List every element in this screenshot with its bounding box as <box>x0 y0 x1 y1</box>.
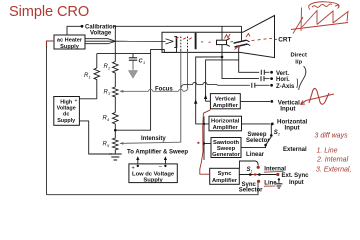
svg-text:ac Heater: ac Heater <box>57 38 83 44</box>
svg-text:External: External <box>283 147 307 153</box>
resistor R3 (focus pot) <box>104 87 119 112</box>
svg-text:Voltage: Voltage <box>90 31 112 37</box>
svg-text:2: 2 <box>277 131 281 136</box>
svg-text:Linear: Linear <box>246 152 265 158</box>
wire: divider top rail <box>97 53 151 55</box>
svg-text:Supply: Supply <box>60 44 80 50</box>
switch S2 arm <box>266 137 271 145</box>
wire: G1 lead down to intensity <box>180 51 182 143</box>
resistor R5 (intensity pot) <box>103 130 119 153</box>
beam axis (red dashes) <box>201 38 272 42</box>
ac heater supply box <box>54 35 85 50</box>
low dc voltage supply box <box>129 164 177 184</box>
wire: heater box left red corner <box>47 41 55 47</box>
vertical amplifier box U1 <box>210 94 240 109</box>
capacitor Z-axis coupling <box>252 83 270 88</box>
resistor R4 <box>103 112 119 130</box>
red annotation: 3 diff ways <box>315 133 352 174</box>
resistor R1 <box>84 54 100 99</box>
wire: first pair lead up to top rail <box>221 26 223 40</box>
wire: intensity wiper line <box>120 136 181 145</box>
svg-text:1: 1 <box>251 169 253 174</box>
anode bar <box>195 33 197 49</box>
svg-text:Input: Input <box>285 125 300 132</box>
svg-text:Amplifier: Amplifier <box>212 178 238 184</box>
svg-text:Low dc Voltage: Low dc Voltage <box>132 171 175 177</box>
CRT neck <box>162 32 243 52</box>
node vertical input terminal <box>270 99 300 112</box>
svg-text:Simple CRO: Simple CRO <box>9 4 89 20</box>
cathode <box>174 36 177 48</box>
wire: horizontal amp output up to plates <box>194 57 222 124</box>
node line contact (red) <box>257 180 277 187</box>
svg-text:Vert.: Vert. <box>276 71 289 77</box>
grid G2 (dashed) <box>187 37 189 51</box>
wire: HV minus to ground <box>79 121 112 154</box>
horizontal deflection plates (second pair, slanted) <box>234 40 251 47</box>
svg-text:3: 3 <box>108 91 111 96</box>
wire: vertical amp output up to plates <box>204 60 239 101</box>
node R4-R5 junction <box>114 129 117 132</box>
wire: first pair lead down to Hori terminal <box>221 45 259 79</box>
node calibration voltage terminal <box>81 24 117 36</box>
svg-text:4: 4 <box>107 117 110 122</box>
svg-text:To Amplifier & Sweep: To Amplifier & Sweep <box>127 150 188 156</box>
wire: internal sync red trace <box>197 110 210 174</box>
label to amplifier and sweep <box>127 150 188 156</box>
svg-text:Calibration: Calibration <box>85 24 117 30</box>
red annotation: marks near plates and gun <box>176 34 250 50</box>
ground under R5 <box>109 154 122 160</box>
capacitor C1 <box>129 54 145 70</box>
svg-text:2. Internal: 2. Internal <box>316 157 349 164</box>
node horizontal input terminal <box>271 119 308 132</box>
svg-text:5: 5 <box>107 143 110 148</box>
wire: G2 lead down to focus <box>187 51 189 89</box>
resistor R2 <box>104 54 119 87</box>
ground at line contact <box>275 178 282 188</box>
svg-text:Amplifier: Amplifier <box>213 125 239 131</box>
wire: sawtooth output to S2 linear contact <box>241 144 267 148</box>
svg-text:dc: dc <box>63 112 69 118</box>
vertical deflection plates (first pair) <box>217 38 230 46</box>
svg-text:1: 1 <box>89 75 91 80</box>
wire: left rail <box>46 46 48 195</box>
node internal contact (red) <box>257 166 287 173</box>
switch S2 external contact <box>270 124 281 137</box>
label sweep selector <box>246 132 270 144</box>
wire: calibration drop to heater junction and divider <box>114 26 116 54</box>
svg-text:3. External,: 3. External, <box>316 167 351 174</box>
wire: second pair lead up (top rail end) <box>241 26 243 40</box>
wire: heater lines <box>85 39 173 44</box>
svg-text:Ext. Sync: Ext. Sync <box>282 173 310 179</box>
svg-text:Hori.: Hori. <box>276 77 290 83</box>
wire: focus wiper line with hop <box>120 86 188 92</box>
svg-text:Selector: Selector <box>239 188 263 194</box>
red arrow annotation on sync line <box>253 173 259 176</box>
wire: top rail to CRT <box>114 25 242 27</box>
svg-text:1: 1 <box>143 60 145 65</box>
switch S1 internal contact wire <box>240 161 259 174</box>
wire: cathode return from R4 junction <box>115 48 176 130</box>
label sync selector <box>239 182 263 194</box>
title Simple CRO <box>9 4 89 20</box>
svg-text:2: 2 <box>107 66 111 71</box>
svg-text:Input: Input <box>280 105 295 112</box>
red annotation: sine wave near vertical input <box>301 88 335 104</box>
svg-text:I/p: I/p <box>295 59 302 65</box>
svg-text:Intensity: Intensity <box>141 136 166 142</box>
node Vert terminal <box>270 71 289 77</box>
wire: z-axis line with hops <box>181 83 250 89</box>
horizontal amplifier box U2 <box>209 116 242 131</box>
node Z-axis terminal <box>270 84 295 90</box>
wire: HV plus to R1 <box>79 98 96 100</box>
svg-text:Input: Input <box>289 180 304 186</box>
svg-text:Focus: Focus <box>155 86 173 92</box>
capacitor Hori coupling <box>261 76 270 81</box>
svg-text:Supply: Supply <box>57 118 75 124</box>
svg-text:−: − <box>159 164 163 171</box>
svg-text:+: + <box>75 98 78 104</box>
label Direct I/p with brace <box>291 53 308 90</box>
CRT funnel and screen <box>240 16 292 58</box>
svg-text:Horizontal: Horizontal <box>211 119 240 125</box>
sync amplifier box U3 <box>210 168 240 184</box>
svg-text:3 diff ways: 3 diff ways <box>315 133 349 140</box>
wire: heater box top to calibration terminal <box>67 26 83 35</box>
svg-text:Sync: Sync <box>218 171 233 177</box>
svg-text:Amplifier: Amplifier <box>213 103 239 109</box>
grid G1 (dashed) <box>180 37 182 51</box>
svg-text:Direct: Direct <box>291 53 308 59</box>
ground under C1 (gray arrow) <box>128 71 137 79</box>
wire: internal sync vertical <box>203 117 211 161</box>
label Linear <box>246 152 265 158</box>
svg-text:Supply: Supply <box>143 178 163 184</box>
label External <box>283 147 307 153</box>
svg-text:CRT: CRT <box>278 37 291 44</box>
red annotation: sawtooth sketch top right <box>291 2 348 34</box>
wire: horizontal input line <box>242 123 271 125</box>
node ext sync terminal (red) <box>276 173 309 186</box>
node Hori terminal <box>270 77 290 83</box>
high voltage dc supply box <box>54 97 80 126</box>
sawtooth sweep generator box <box>211 138 241 159</box>
wire: low dc supply arrows <box>136 156 167 164</box>
wire: vertical input line <box>240 100 270 102</box>
svg-text:Vertical: Vertical <box>215 96 236 102</box>
capacitor Vert coupling <box>261 70 269 75</box>
svg-text:Generator: Generator <box>212 152 240 158</box>
wire: sync selector common line <box>239 173 276 176</box>
svg-text:1. Line: 1. Line <box>317 148 338 155</box>
wire: bottom rail to Line contact <box>47 182 259 195</box>
wire: second pair lead down to Vert terminal <box>239 47 260 72</box>
svg-text:Z-Axis: Z-Axis <box>276 84 295 90</box>
